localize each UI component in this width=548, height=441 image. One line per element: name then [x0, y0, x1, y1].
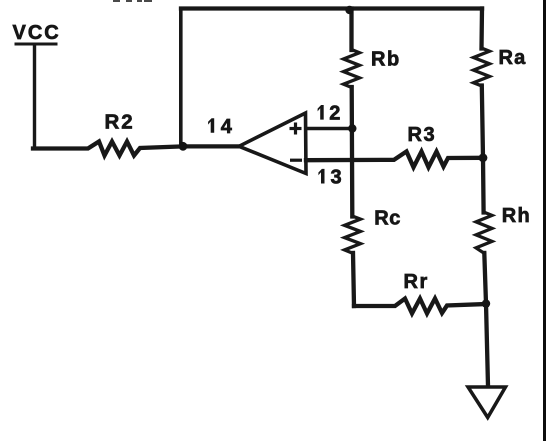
svg-text:4: 4 — [221, 116, 233, 138]
svg-text:3: 3 — [331, 166, 342, 188]
svg-text:2: 2 — [329, 102, 340, 124]
svg-text:VCC: VCC — [13, 22, 61, 44]
svg-text:Rb: Rb — [371, 49, 401, 71]
svg-text:R2: R2 — [105, 111, 135, 134]
svg-text:Rr: Rr — [404, 271, 429, 293]
svg-text:R3: R3 — [408, 124, 437, 146]
svg-text:Rc: Rc — [374, 208, 401, 230]
svg-text:Rh: Rh — [502, 205, 531, 227]
svg-text:Ra: Ra — [499, 47, 527, 69]
